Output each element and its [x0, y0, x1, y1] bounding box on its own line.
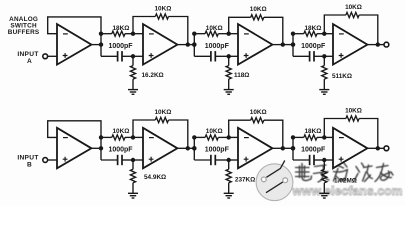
wire junction split B4	[292, 137, 294, 160]
node junction A4 output-tie	[291, 42, 295, 46]
svg-text:118Ω: 118Ω	[234, 72, 249, 79]
node B4 output junction	[376, 146, 380, 150]
node junction B2 output-tie	[99, 146, 103, 150]
wire node to non-inverting input	[229, 55, 238, 57]
svg-text:10KΩ: 10KΩ	[206, 25, 223, 32]
node B2 inverting input	[131, 135, 135, 139]
node junction A3 output-tie	[192, 42, 196, 46]
node B4 non-inverting input	[322, 158, 326, 162]
node A4 output junction	[376, 42, 380, 46]
node interstage junction	[192, 146, 196, 150]
wire buffer feedback loop B1	[48, 121, 101, 138]
svg-text:1000pF: 1000pF	[108, 147, 133, 154]
node junction A2 output-tie	[99, 42, 103, 46]
wire interstage	[188, 147, 195, 149]
ground symbol B2	[128, 193, 138, 198]
capacitor 1000pF B4	[293, 147, 326, 166]
wire junction split A3	[193, 34, 195, 57]
wire node to non-inverting input	[229, 159, 238, 161]
wire node to non-inverting input	[324, 159, 333, 161]
resistor 10K&#937; feedback B4	[324, 107, 378, 148]
svg-text:1000pF: 1000pF	[205, 43, 230, 50]
wire junction split B2	[100, 137, 102, 160]
svg-text:18KΩ: 18KΩ	[112, 25, 129, 32]
wire node to inverting input	[229, 33, 238, 35]
svg-text:1000pF: 1000pF	[205, 147, 230, 154]
node B4 inverting input	[322, 135, 326, 139]
wire to output terminal	[378, 44, 384, 46]
svg-text:1000pF: 1000pF	[108, 43, 133, 50]
svg-text:1.02MΩ: 1.02MΩ	[334, 178, 357, 185]
node junction B4 minus-branch	[291, 135, 295, 139]
svg-text:10KΩ: 10KΩ	[206, 128, 223, 135]
ground symbol B4	[319, 193, 329, 198]
svg-text:10KΩ: 10KΩ	[250, 109, 267, 116]
wire buffer output	[91, 44, 101, 46]
node junction B2 minus-branch	[99, 135, 103, 139]
wire B2 output	[177, 147, 187, 149]
node B2 output junction	[186, 146, 190, 150]
title label analog switch buffers	[8, 16, 40, 36]
output terminal	[384, 146, 389, 151]
svg-text:54.9KΩ: 54.9KΩ	[144, 174, 166, 181]
node A4 inverting input	[322, 32, 326, 36]
resistor 511K&#937; to ground A4	[322, 56, 352, 89]
svg-text:511KΩ: 511KΩ	[332, 73, 352, 80]
node B3 inverting input	[227, 135, 231, 139]
op-amp B3	[238, 128, 272, 169]
op-amp buffer A1	[57, 24, 91, 65]
svg-text:18KΩ: 18KΩ	[304, 128, 321, 135]
svg-text:10KΩ: 10KΩ	[112, 128, 129, 135]
wire A2 output	[177, 44, 187, 46]
ground symbol A4	[319, 90, 329, 95]
node interstage junction	[192, 42, 196, 46]
wire junction split B3	[193, 137, 195, 160]
svg-text:1000pF: 1000pF	[301, 43, 326, 50]
ground symbol B3	[224, 193, 234, 198]
wire B3 output	[272, 147, 282, 149]
node interstage junction	[291, 42, 295, 46]
wire junction split A4	[292, 34, 294, 57]
resistor 10K&#937; series input B2	[101, 128, 133, 140]
wire node to non-inverting input	[133, 55, 143, 57]
op-amp A3	[238, 24, 272, 65]
svg-text:B: B	[27, 162, 32, 169]
input terminal INPUT B	[17, 155, 47, 169]
watermark url www.elecfans.com	[292, 184, 403, 198]
svg-text:www.elecfans.com: www.elecfans.com	[292, 184, 403, 198]
svg-text:10KΩ: 10KΩ	[154, 5, 171, 12]
node junction B3 output-tie	[192, 146, 196, 150]
node junction B3 minus-branch	[192, 135, 196, 139]
ground symbol A2	[128, 90, 138, 95]
watermark logo disc	[256, 161, 293, 201]
svg-text:18KΩ: 18KΩ	[304, 25, 321, 32]
node junction B4 output-tie	[291, 146, 295, 150]
wire node to inverting input	[324, 33, 333, 35]
node junction A2 minus-branch	[99, 32, 103, 36]
op-amp A2	[143, 24, 177, 65]
svg-text:10KΩ: 10KΩ	[345, 4, 362, 11]
wire node to inverting input	[324, 136, 333, 138]
ground symbol A3	[224, 90, 234, 95]
svg-text:10KΩ: 10KΩ	[250, 6, 267, 13]
node A3 inverting input	[227, 32, 231, 36]
op-amp B4	[333, 128, 367, 169]
resistor 1.02M&#937; to ground B4	[322, 160, 357, 193]
node A4 non-inverting input	[322, 54, 326, 58]
capacitor 1000pF A2	[101, 43, 133, 62]
resistor 18K&#937; series input B4	[293, 128, 324, 140]
capacitor 1000pF B3	[194, 147, 229, 166]
node B3 output junction	[281, 146, 285, 150]
capacitor 1000pF A4	[293, 43, 326, 62]
node junction A3 minus-branch	[192, 32, 196, 36]
wire input to buffer	[48, 159, 57, 161]
svg-text:237KΩ: 237KΩ	[235, 176, 255, 183]
node A2 inverting input	[131, 32, 135, 36]
resistor 54.9K&#937; to ground B2	[130, 160, 166, 193]
resistor 10K&#937; series input B3	[194, 128, 228, 140]
input terminal INPUT A	[17, 51, 47, 65]
output terminal	[384, 42, 389, 47]
wire node to non-inverting input	[324, 55, 333, 57]
node A3 output junction	[281, 42, 285, 46]
resistor 16.2K&#937; to ground A2	[130, 56, 163, 89]
wire B4 output	[367, 147, 377, 149]
node interstage junction	[291, 146, 295, 150]
resistor 10K&#937; series input A3	[194, 25, 228, 36]
op-amp B2	[143, 128, 177, 169]
svg-text:1000pF: 1000pF	[301, 147, 326, 154]
wire interstage	[188, 44, 195, 46]
svg-text:10KΩ: 10KΩ	[154, 109, 171, 116]
wire interstage	[283, 44, 293, 46]
resistor 18K&#937; series input A4	[293, 25, 324, 36]
wire A3 output	[272, 44, 282, 46]
node A2 output junction	[186, 42, 190, 46]
resistor 10K&#937; feedback B3	[229, 109, 283, 148]
capacitor 1000pF B2	[101, 147, 133, 166]
wire A4 output	[367, 44, 377, 46]
svg-text:BUFFERS: BUFFERS	[8, 29, 40, 36]
wire node to inverting input	[133, 136, 143, 138]
svg-text:10KΩ: 10KΩ	[345, 107, 362, 114]
wire interstage	[283, 147, 293, 149]
wire junction split A2	[100, 34, 102, 57]
resistor 237K&#937; to ground B3	[226, 160, 255, 193]
wire node to inverting input	[133, 33, 143, 35]
wire node to inverting input	[229, 136, 238, 138]
wire to output terminal	[378, 147, 384, 149]
op-amp buffer B1	[57, 128, 91, 169]
svg-text:16.2KΩ: 16.2KΩ	[142, 72, 164, 79]
capacitor 1000pF A3	[194, 43, 229, 62]
node A3 non-inverting input	[227, 54, 231, 58]
resistor 10K&#937; feedback A4	[324, 4, 378, 45]
node A2 non-inverting input	[131, 54, 135, 58]
resistor 10K&#937; feedback A2	[133, 5, 188, 44]
node junction A4 minus-branch	[291, 32, 295, 36]
wire node to non-inverting input	[133, 159, 143, 161]
watermark chinese characters	[296, 163, 394, 183]
op-amp A4	[333, 24, 367, 65]
svg-text:A: A	[27, 58, 32, 65]
wire buffer feedback loop A1	[48, 17, 101, 34]
wire buffer output	[91, 147, 101, 149]
wire input to buffer	[48, 55, 57, 57]
resistor 18K&#937; series input A2	[101, 25, 133, 36]
node B3 non-inverting input	[227, 158, 231, 162]
resistor 10K&#937; feedback A3	[229, 6, 283, 45]
resistor 118&#937; to ground A3	[226, 56, 249, 89]
node B2 non-inverting input	[131, 158, 135, 162]
resistor 10K&#937; feedback B2	[133, 109, 188, 149]
